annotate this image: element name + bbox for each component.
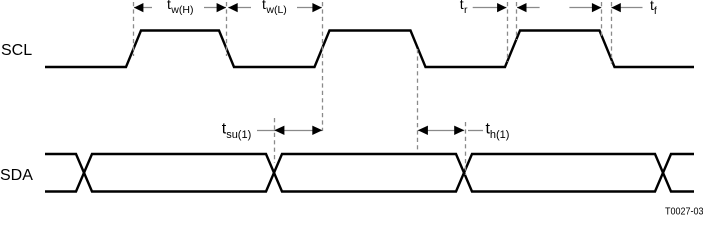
node dashed line SCL rise 2 <box>322 2 324 131</box>
label t_r <box>460 0 468 16</box>
dimension t_w(L) arrows <box>228 3 322 12</box>
dimension t_h(1) arrows with leader <box>418 126 483 135</box>
svg-text:w(H): w(H) <box>170 4 193 16</box>
svg-text:w(L): w(L) <box>265 4 286 16</box>
wire SDA waveform line 1 <box>45 154 694 192</box>
label t_h(1) <box>486 121 510 142</box>
wire SCL waveform <box>45 31 694 68</box>
node dashed line SCL fall 1 <box>226 2 228 56</box>
dimension t_r arrows <box>473 3 540 12</box>
label t_su(1) <box>222 121 251 142</box>
node dashed line t_r end <box>516 2 518 40</box>
label t_w(H) <box>167 0 193 16</box>
dimension t_f arrows <box>569 3 642 12</box>
node dashed line t_r start <box>507 2 509 62</box>
dimension t_w(H) arrows <box>134 3 226 12</box>
label t_f <box>650 0 657 17</box>
node dashed line t_f end <box>611 2 613 64</box>
wire SDA waveform line 2 <box>45 154 694 192</box>
node dashed line SDA transition t_su <box>274 118 276 163</box>
node dashed line SDA transition t_h <box>465 122 467 175</box>
svg-text:SCL: SCL <box>1 42 32 59</box>
svg-text:su(1): su(1) <box>226 129 251 141</box>
node dashed line SCL rise 1 <box>133 2 135 56</box>
svg-text:SDA: SDA <box>0 167 33 184</box>
dimension t_su(1) arrows with leader <box>257 126 322 135</box>
svg-text:h(1): h(1) <box>490 129 510 141</box>
node dashed line SCL fall 2 <box>417 49 419 150</box>
svg-text:T0027-03: T0027-03 <box>665 206 703 215</box>
node dashed line t_f start <box>601 2 603 38</box>
label t_w(L) <box>262 0 287 16</box>
svg-text:r: r <box>464 4 468 16</box>
svg-text:f: f <box>654 5 657 17</box>
svg-text:t: t <box>262 0 266 12</box>
